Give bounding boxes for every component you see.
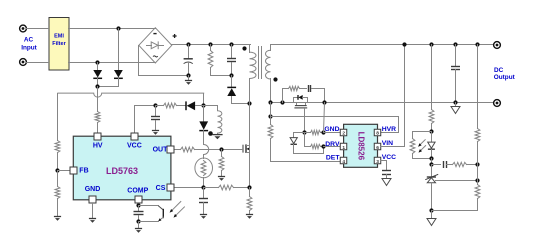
wire FB node to FB pin [58, 170, 70, 172]
wire R2 to FB node [57, 153, 59, 171]
svg-text:1: 1 [342, 145, 345, 151]
wire OUT pin to gate resistor [175, 149, 181, 151]
resistor R9 (current sense) [247, 188, 252, 215]
op-amp U2 LD8526 SR controller [344, 124, 378, 167]
resistor R14 (DRV row) [305, 144, 324, 148]
resistor R2 (FB divider upper) [55, 141, 60, 153]
wire COMP node to ground [138, 222, 140, 229]
pin GND (LD5763) [85, 186, 101, 203]
node GND row left [302, 130, 306, 134]
pin GND (LD8526) pin 2 [324, 126, 346, 137]
wire LED bottom to comp node [431, 159, 433, 165]
label AC Input [21, 37, 37, 52]
resistor R16 (LED parallel) [410, 132, 431, 159]
node TL431 anode [429, 208, 433, 212]
node clamp RC junction [229, 73, 233, 77]
wire TL431 ref to divider tap [436, 180, 478, 182]
svg-text:3: 3 [376, 159, 379, 165]
wire FB node to R3 [57, 171, 59, 187]
svg-text:LD8526: LD8526 [357, 132, 366, 161]
wire startup node down to HV resistor [97, 87, 99, 112]
optocoupler phototransistor U2a [139, 202, 185, 222]
wire EMI to bridge bottom corner (AC line 2) [69, 62, 156, 64]
ground (bulk capacitor) [185, 81, 192, 85]
capacitor C1 (bulk, polarized) [184, 45, 193, 76]
svg-text:DC: DC [494, 67, 504, 74]
node Q1 source junction [247, 185, 251, 189]
transistor Q1 (main switch MOSFET) [243, 144, 250, 153]
svg-text:4: 4 [342, 159, 345, 165]
pin OUT [153, 146, 174, 154]
auxiliary winding [218, 111, 222, 135]
svg-text:LD5763: LD5763 [106, 166, 138, 176]
wire HVR sense line [271, 117, 399, 133]
wire aux node to aux winding [204, 106, 218, 111]
node junction on AC line1 at startup diode D2 [116, 26, 120, 30]
node drain / clamp junction [247, 101, 251, 105]
diode D6 (gate, hollow) [290, 133, 323, 154]
wire divider riser [477, 45, 479, 129]
svg-text:8: 8 [376, 131, 379, 137]
transformer T1 core [259, 47, 262, 79]
resistor R12 (DET upper) [268, 125, 273, 139]
svg-text:Output: Output [494, 74, 516, 81]
wire comp node to TL431 [431, 165, 433, 177]
node rail at bulk cap [186, 42, 190, 46]
resistor R15 (LED series) [429, 110, 434, 124]
svg-text:Filter: Filter [52, 41, 66, 47]
resistor R4 (clamp) [208, 45, 213, 76]
node LED top [429, 129, 433, 133]
wire aux node riser [203, 94, 205, 106]
wire DRV row left riser [304, 133, 306, 147]
node comp branch left [429, 162, 433, 166]
wire comp node to tap [477, 165, 479, 181]
node gate row at pulldown [219, 147, 223, 151]
wire VIN pin to DC+ rail [381, 45, 405, 147]
node comp branch right [475, 162, 479, 166]
wire R15 to LED node [431, 124, 433, 132]
wire bridge negative corner to bulk cap bottom [139, 46, 189, 76]
wire GND row [294, 132, 305, 134]
wire aux sense line to FB divider (hops over HV wire) [58, 93, 204, 97]
pin VCC (LD8526) pin 3 [374, 154, 396, 165]
diode D2 (startup, from AC line1) [114, 29, 123, 87]
wire AC bottom terminal to EMI [27, 62, 49, 64]
svg-text:GND: GND [85, 186, 101, 193]
svg-text:VIN: VIN [382, 140, 393, 147]
wire CS pin to CS node [175, 187, 204, 189]
svg-text:VCC: VCC [127, 143, 142, 150]
wire bulk cap to ground [188, 76, 190, 81]
diode D4 (aux node, pointing down) [199, 106, 208, 145]
node LED bottom [429, 156, 433, 160]
node rail at clamp capacitor [229, 42, 233, 46]
ground (GND pin) [89, 219, 96, 223]
svg-text:Input: Input [21, 44, 37, 51]
ground (gate pulldown) [218, 177, 225, 181]
capacitor C4 (VCC) [151, 106, 160, 131]
wire TL431 anode to ground [431, 211, 433, 219]
phase dot primary [242, 46, 246, 50]
diode D3 (clamp) [227, 76, 236, 104]
pin COMP [127, 188, 148, 203]
node bulk cap bottom [186, 73, 190, 77]
wire clamp diode to drain [232, 103, 250, 105]
wire secondary return rail [271, 102, 494, 104]
ground (LD8526 VCC, hollow) [382, 179, 391, 186]
wire GND row to rail tie [324, 103, 325, 133]
wire R1 to HV pin [97, 123, 99, 133]
node DC+ rail at output cap [453, 42, 457, 46]
wire R12 to DET pin [271, 139, 341, 162]
svg-text:GND: GND [324, 126, 339, 133]
node VCC cap junction [153, 103, 157, 107]
pin CS [156, 184, 174, 192]
svg-text:CS: CS [156, 185, 166, 192]
pin DRV pin 1 [325, 141, 346, 151]
wire secondary DC+ rail [271, 44, 494, 46]
wire GND row to GND pin [324, 132, 341, 134]
svg-text:HV: HV [93, 142, 103, 149]
phase dot secondary [273, 77, 277, 81]
ground (TL431, hollow) [427, 219, 436, 226]
transformer T1 primary winding [250, 45, 257, 104]
EMI filter block [49, 18, 69, 71]
resistor R1 (HV startup) [95, 112, 100, 123]
ground (COMP) [135, 229, 142, 233]
svg-text:DRV: DRV [325, 141, 340, 148]
terminal AC line 2 (bottom) [20, 59, 27, 66]
ground (current sense) [246, 215, 253, 219]
wire opto chain riser [431, 45, 433, 110]
diode D5 (VCC rectifier, cathode left) [177, 101, 204, 110]
svg-text:6: 6 [376, 145, 379, 151]
transistor Q2 channel and gate [294, 103, 307, 133]
node startup diode cathodes [95, 84, 99, 88]
svg-text:2: 2 [342, 131, 345, 137]
node aux winding junction [201, 103, 205, 107]
node DRV junction [321, 144, 325, 148]
pin VCC (LD5763) [127, 133, 142, 150]
node secondary return at winding [268, 100, 272, 104]
wire D4 to circled resistor (hops over gate row) [204, 145, 209, 159]
wire R19 to TL431 anode [432, 199, 478, 211]
op-amp U1 LD5763 controller [73, 136, 171, 200]
node return rail at output cap [453, 100, 457, 104]
wire FB divider top [57, 94, 59, 141]
capacitor C5 (COMP) [134, 206, 144, 222]
ground (CS filter cap) [200, 215, 207, 219]
node DET chain top [268, 114, 272, 118]
resistor R5 (gate) [181, 147, 195, 152]
wire GND pin down [92, 204, 94, 219]
pin DET pin 4 [326, 155, 347, 166]
resistor R3 (FB divider lower) [55, 187, 60, 199]
svg-text:EMI: EMI [54, 34, 64, 40]
resistor R19 (divider lower) [475, 181, 480, 199]
pin VIN pin 6 [374, 140, 393, 151]
node DC+ rail at opto chain [429, 42, 433, 46]
resistor R6 (gate pulldown) [219, 150, 224, 177]
node GND row right [321, 130, 325, 134]
wire primary DC+ rail [172, 44, 251, 46]
node snubber left [280, 100, 284, 104]
node junction on AC line2 at startup diode D1 [95, 60, 99, 64]
wire gate row [195, 149, 243, 151]
transistor Q2 (sync rectifier) body diode [294, 95, 308, 103]
wire circled resistor to CS row [203, 178, 205, 188]
node VIN at DC+ rail [402, 42, 406, 46]
svg-text:COMP: COMP [127, 188, 148, 195]
wire AC top terminal to EMI [27, 28, 49, 30]
pin FB [70, 167, 89, 174]
svg-text:HVR: HVR [382, 126, 396, 133]
terminal DC- output [494, 100, 501, 107]
wire R18 to comp node [477, 142, 479, 165]
resistor R13 (GND row) [305, 130, 324, 134]
node FB divider tap [55, 168, 59, 172]
pin HV [93, 133, 103, 149]
wire VCC pin riser [135, 106, 156, 133]
svg-text:DET: DET [326, 155, 340, 162]
transformer T1 secondary winding [266, 45, 271, 103]
bridge rectifier BR1 [139, 28, 177, 63]
wire DRV junction to DRV pin [324, 146, 341, 148]
svg-text:AC: AC [24, 37, 34, 44]
ground (aux winding) [212, 135, 222, 140]
resistor R18 (divider upper) [475, 129, 480, 142]
wire D2 cathode to D1 cathode [98, 86, 119, 88]
node divider tap [475, 178, 479, 182]
label DC Output [494, 67, 516, 81]
shunt regulator U3 (TL431) [425, 174, 438, 210]
node COMP bottom [136, 219, 140, 223]
snubber RC (R11, C6) [283, 85, 325, 103]
capacitor C2 (clamp) [227, 45, 236, 76]
resistor R7 (in circle, to CS) [195, 158, 213, 178]
svg-text:VCC: VCC [382, 154, 396, 161]
node CS filter junction [201, 185, 205, 189]
capacitor C9 + resistor R17 (compensation) [432, 161, 478, 168]
node DC+ rail at divider [475, 42, 479, 46]
svg-text:OUT: OUT [153, 147, 169, 154]
capacitor C8 (LD8526 VCC) [381, 161, 392, 179]
node rail at clamp resistor [208, 42, 212, 46]
pin HVR pin 8 [374, 126, 396, 137]
node COMP top [136, 203, 140, 207]
wire R3 to ground [57, 199, 59, 217]
ground (FB divider) [54, 217, 61, 221]
wire Q1 source to CS node [249, 153, 251, 188]
wire clamp R to clamp node [211, 75, 232, 77]
node snubber right / GND tie [322, 100, 326, 104]
terminal DC+ output [494, 42, 501, 49]
svg-text:FB: FB [79, 167, 88, 174]
diode D1 (startup, from AC line2) [93, 63, 102, 87]
ground (VCC cap) [152, 131, 159, 135]
capacitor C7 (output) [451, 45, 460, 103]
optocoupler LED U2b [418, 132, 435, 159]
resistor R10 (VCC series) [156, 103, 177, 108]
wire drain node to MOSFET Q1 [249, 104, 251, 146]
wire COMP pin down [138, 204, 140, 206]
resistor R8 (CS) [204, 185, 250, 190]
ground (output return, hollow) [451, 103, 460, 114]
capacitor C3 (CS filter) [199, 188, 208, 215]
wire EMI to bridge top corner (AC line 1) [69, 28, 156, 30]
terminal AC line 1 (top) [20, 25, 27, 32]
phase dot auxiliary [208, 131, 213, 136]
wire secondary return to DET resistor [270, 103, 272, 125]
